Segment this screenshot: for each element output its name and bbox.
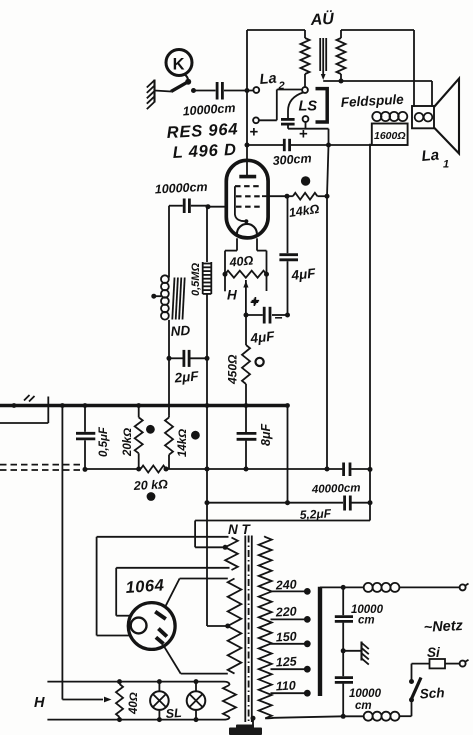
svg-text:RES 964: RES 964 — [166, 120, 238, 142]
svg-text:L 496 D: L 496 D — [172, 141, 237, 162]
node switch contact — [191, 88, 196, 93]
wire 40ohm stubs — [225, 274, 267, 291]
wire La2 lower to LS top — [259, 90, 302, 121]
field coil Feldspule — [372, 112, 408, 145]
transformer AÜ secondary winding — [337, 30, 346, 81]
label Netz — [423, 618, 464, 636]
node y503 x287 — [285, 500, 290, 505]
wire 1064 outer loop — [97, 537, 130, 636]
ground symbol at K switch — [147, 80, 171, 110]
label 1600 ohm — [374, 130, 406, 142]
wire ND tap — [151, 294, 161, 299]
label AÜ — [309, 9, 335, 29]
node 14k right — [325, 194, 330, 199]
wire vertical feldspule drop x=370 — [369, 144, 371, 521]
terminal LS top — [302, 87, 308, 93]
node tap 240 — [304, 588, 311, 595]
wire left edge entry — [0, 397, 48, 424]
transformer AÜ primary winding — [301, 30, 310, 87]
tube 1064 envelope — [128, 603, 175, 650]
ground symbol mains — [343, 642, 369, 665]
label H heater — [227, 288, 237, 303]
wire screen output — [262, 195, 287, 197]
lamp SL1 — [150, 679, 169, 722]
svg-text:La: La — [421, 147, 440, 165]
node y503 x370 — [368, 500, 373, 505]
label 4uF screen — [290, 265, 317, 283]
svg-text:150: 150 — [275, 629, 297, 644]
label H bottom — [34, 695, 45, 711]
loudspeaker La1 voice coil — [412, 106, 434, 128]
label Feldspule — [340, 92, 404, 110]
node rail end x370 — [368, 467, 373, 472]
tube 1064 anode1 — [155, 579, 179, 620]
svg-text:~Netz: ~Netz — [423, 618, 464, 636]
capacitor 2uF — [169, 350, 207, 367]
label N T — [228, 522, 252, 537]
tick marks left — [24, 395, 35, 402]
wire vertical right to speaker — [413, 30, 415, 107]
capacitor 10000cm grid — [169, 199, 208, 214]
node tap 125 — [304, 666, 311, 673]
wire capacitor to La2 node — [224, 90, 253, 92]
wire 2uF right down — [206, 358, 208, 405]
terminal La2 upper — [253, 87, 259, 93]
tube grid dashes — [235, 186, 262, 207]
svg-text:125: 125 — [275, 654, 298, 669]
tube anode plate — [239, 175, 256, 179]
capacitor LS electrolytic — [281, 119, 295, 124]
node screen junction — [285, 194, 290, 199]
node 40b top — [117, 679, 122, 684]
capacitor 300cm — [284, 139, 289, 151]
resistor 20k vertical — [135, 406, 143, 470]
wire secondary bottom out — [265, 716, 343, 718]
wire bottom mains — [343, 715, 411, 717]
svg-text:Sch: Sch — [419, 685, 445, 701]
bus main B+ rail — [0, 404, 288, 408]
svg-text:20 kΩ: 20 kΩ — [132, 477, 168, 493]
wire P1 bottom — [116, 567, 229, 569]
resistor 14k ohm screen — [287, 193, 327, 200]
terminal LS bottom — [303, 116, 309, 122]
node bus x138 — [136, 403, 141, 408]
svg-text:450Ω: 450Ω — [226, 354, 240, 385]
resistor 450 ohm cathode — [242, 315, 250, 406]
label ND — [170, 323, 191, 339]
svg-text:10000cm: 10000cm — [154, 180, 207, 197]
node rail 20k right — [164, 467, 169, 472]
indicator circle K — [166, 50, 192, 81]
bracket LS — [316, 89, 328, 122]
wire tap 240 — [271, 590, 306, 592]
choke mains top — [364, 583, 400, 592]
svg-text:SL: SL — [165, 706, 182, 721]
label 14k vertical — [177, 429, 189, 457]
svg-text:−: − — [275, 310, 283, 326]
label 40 ohm bottom — [128, 692, 140, 715]
node P2 center tap — [225, 624, 230, 629]
switch Sch — [409, 664, 421, 703]
svg-text:4μF: 4μF — [249, 328, 276, 346]
wire mains y520 — [195, 520, 370, 522]
label plus heater — [251, 293, 260, 310]
wire vertical main anode line x=247 — [246, 30, 248, 177]
label 10000cm grid — [154, 180, 207, 197]
transformer NT heater winding P3 — [221, 682, 236, 720]
node 2uF right — [205, 356, 210, 361]
tube grid side connector — [235, 186, 249, 223]
selector bar — [318, 587, 322, 696]
node rail x327 — [325, 467, 330, 472]
node bus x246 — [244, 403, 249, 408]
svg-text:cm: cm — [358, 615, 375, 627]
capacitor 10000cm lower — [335, 651, 353, 717]
node cathode right — [285, 313, 290, 318]
wire core ground stem — [251, 716, 256, 735]
terminal mains top — [460, 584, 469, 591]
label 2uF — [173, 368, 200, 385]
capacitor 10000cm coupling — [217, 82, 222, 100]
node junction anode bus — [245, 143, 250, 148]
wire mains drop left — [195, 521, 225, 548]
wire tap 110 — [271, 692, 306, 694]
blob 20k h — [147, 492, 156, 501]
wire ND bottom — [168, 320, 170, 358]
wire tap 150 — [271, 643, 306, 645]
svg-text:K: K — [173, 56, 185, 74]
label 10000 lower — [349, 688, 382, 712]
node cathode left — [244, 313, 249, 318]
rail heater top — [47, 681, 221, 683]
smudge bottom label — [229, 725, 262, 735]
label 20k horizontal — [132, 477, 168, 493]
label 40000cm — [311, 482, 361, 496]
transformer NT rectifier winding P2 — [180, 579, 242, 674]
svg-text:H: H — [227, 288, 237, 303]
wire vertical x=327 — [327, 145, 329, 469]
svg-text:+: + — [250, 124, 259, 141]
node AÜ secondary bottom — [339, 79, 344, 84]
resistor 14k vertical — [165, 416, 173, 469]
tube cathode dome — [237, 224, 257, 234]
label 8uF — [259, 424, 273, 446]
label 1064 — [125, 576, 165, 597]
wire x207 drop — [206, 406, 208, 627]
node tap 110 — [304, 690, 311, 697]
svg-text:220: 220 — [274, 604, 297, 619]
blob 14k — [191, 431, 200, 440]
label plus 4uF — [250, 294, 259, 311]
svg-text:N T: N T — [228, 522, 252, 537]
label 14k ohm — [288, 202, 321, 220]
capacitor 8uF — [237, 433, 257, 469]
choke mains bottom — [364, 712, 400, 721]
blob 20k — [146, 425, 155, 434]
svg-text:10000: 10000 — [349, 688, 382, 700]
wire LS capacitor to junction — [288, 122, 329, 144]
label 0.5uF — [98, 426, 110, 457]
node bottom wire — [341, 714, 346, 719]
node 40b bottom — [117, 717, 122, 722]
node bus x287 — [285, 403, 290, 408]
node y503 x207 — [205, 500, 210, 505]
node rail start — [83, 467, 88, 472]
wire grid input — [206, 204, 227, 209]
label 125 — [275, 654, 298, 669]
wire choke to switch — [411, 702, 413, 716]
svg-text:14kΩ: 14kΩ — [177, 429, 189, 457]
label LS — [299, 99, 318, 115]
tube 1064 anode2 — [156, 629, 181, 674]
wire 450 to 8uF — [245, 406, 247, 433]
svg-text:0,5MΩ: 0,5MΩ — [190, 263, 202, 296]
wire anode bus y145 — [247, 144, 372, 146]
dashed gang coupling — [0, 465, 83, 470]
label minus 4uF — [275, 310, 283, 326]
svg-text:110: 110 — [275, 678, 296, 693]
wire selector top out — [320, 586, 460, 588]
node tap 150 — [304, 640, 311, 647]
resistor 40 ohm shunt — [116, 682, 123, 720]
wire grid cap left drop — [168, 206, 170, 278]
tube RES964 envelope — [226, 160, 268, 238]
node rail x246 — [244, 467, 249, 472]
svg-text:1600Ω: 1600Ω — [374, 130, 406, 142]
label La1 — [421, 147, 449, 171]
fuse Si — [412, 659, 460, 668]
label L 496 D — [172, 141, 237, 162]
resistor 20k horizontal — [141, 466, 166, 473]
svg-text:1: 1 — [443, 159, 449, 171]
resistor 0.5M grid leak — [203, 207, 212, 359]
svg-text:La: La — [259, 71, 277, 88]
node bus-LS junction — [326, 143, 331, 148]
label 240 — [274, 577, 297, 592]
switch K lever — [171, 79, 191, 92]
node 40ohm left — [223, 272, 228, 277]
terminal La2 lower plus — [253, 117, 259, 123]
label 4uF cathode — [249, 328, 276, 346]
svg-text:0,5μF: 0,5μF — [98, 426, 110, 457]
node junction La2 feed — [245, 88, 250, 93]
svg-text:LS: LS — [299, 99, 318, 115]
svg-text:H: H — [34, 695, 45, 711]
wire P2 center tap — [207, 625, 228, 627]
label Sch — [419, 685, 445, 701]
wire top-right horizontal from AU secondary — [341, 29, 414, 31]
label 300cm — [272, 151, 312, 168]
wire top-left horizontal to AU primary — [247, 29, 305, 31]
node 40ohm right — [264, 272, 269, 277]
label 20k vertical — [122, 428, 134, 457]
node bus x62 — [60, 403, 65, 408]
capacitor 4uF screen — [279, 196, 298, 315]
svg-text:40Ω: 40Ω — [128, 692, 140, 715]
rail bias y469 — [85, 468, 370, 470]
label 5.2uF — [299, 506, 332, 522]
node bus x207 — [205, 403, 210, 408]
capacitor 0.5uF — [76, 406, 95, 470]
label 110 — [275, 678, 296, 693]
label 150 — [275, 629, 297, 644]
blob above 14k — [301, 176, 310, 185]
node 2uF left — [167, 356, 172, 361]
wire H feed — [62, 406, 111, 703]
transformer AÜ core — [320, 38, 326, 80]
wire heater center tap with arrow — [243, 280, 248, 315]
label 10000cm — [182, 101, 236, 119]
label RES 964 — [166, 120, 238, 142]
terminal mains bottom — [460, 660, 469, 667]
transformer NT primary P1 — [97, 537, 238, 570]
loudspeaker La1 cone — [434, 79, 459, 154]
label SL — [165, 706, 182, 721]
svg-text:+: + — [250, 294, 259, 311]
wire 1064 inner loop — [116, 568, 131, 616]
transformer NT core — [245, 536, 252, 723]
svg-text:300cm: 300cm — [272, 151, 312, 168]
label 10000 upper — [351, 604, 384, 627]
node tap 220 — [304, 616, 311, 623]
node NT primary tap — [223, 545, 228, 550]
svg-text:240: 240 — [274, 577, 297, 592]
wire AÜ bottom to speaker — [323, 81, 432, 107]
svg-text:8μF: 8μF — [259, 424, 273, 446]
wire 2uF left down — [168, 358, 170, 415]
wire tap 220 — [271, 618, 306, 620]
svg-text:Si: Si — [427, 645, 440, 660]
lamp SL2 — [187, 679, 206, 722]
node rail x207 — [205, 467, 210, 472]
capacitor 4uF cathode — [246, 307, 288, 324]
inductor ND — [161, 275, 185, 319]
transformer NT secondary — [259, 536, 272, 718]
svg-text:ND: ND — [170, 323, 191, 339]
svg-text:40Ω: 40Ω — [228, 253, 254, 269]
wire y503 — [207, 502, 370, 504]
node rail 20k left — [136, 467, 141, 472]
label 220 — [274, 604, 297, 619]
resistor 40 ohm heater hum — [225, 271, 267, 278]
node bus x85 — [83, 403, 88, 408]
ring marker 450 — [256, 358, 264, 366]
label Si — [427, 645, 440, 660]
rail heater bottom — [47, 719, 221, 721]
label 40 ohm — [228, 253, 254, 269]
svg-text:40000cm: 40000cm — [311, 482, 361, 496]
label plus La2 — [250, 124, 259, 141]
node bus x14 — [12, 403, 17, 408]
label 450 ohm — [226, 354, 240, 385]
svg-text:cm: cm — [355, 700, 372, 712]
svg-text:20kΩ: 20kΩ — [122, 428, 134, 457]
label 0.5M ohm — [190, 263, 202, 296]
wire tap 125 — [271, 668, 306, 670]
capacitor 10000cm upper — [335, 587, 353, 650]
capacitor 40000cm — [344, 463, 350, 477]
wire tube heater leads — [225, 238, 267, 274]
node ground tap — [341, 648, 346, 653]
svg-text:4μF: 4μF — [290, 265, 317, 283]
svg-text:AÜ: AÜ — [309, 9, 335, 29]
wire x287 drop — [287, 406, 289, 503]
label La2 — [259, 71, 285, 92]
svg-text:1064: 1064 — [125, 576, 165, 597]
node choke1 in — [341, 585, 346, 590]
wire arc LS top to capacitor — [288, 92, 303, 118]
svg-text:2μF: 2μF — [173, 368, 200, 385]
capacitor 5.2uF — [345, 496, 351, 511]
tube 1064 filament — [131, 618, 147, 634]
label plus LS — [299, 126, 308, 143]
wire switch to capacitor — [194, 90, 216, 92]
